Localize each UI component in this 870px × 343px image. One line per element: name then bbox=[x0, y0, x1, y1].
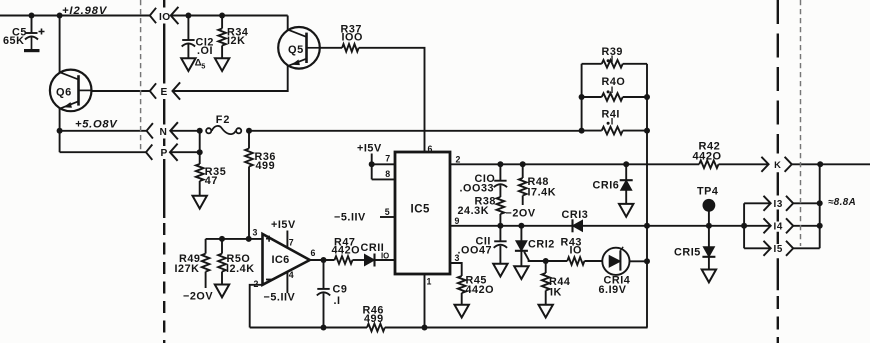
wire F2 to shunt resistors bbox=[249, 130, 582, 132]
connector pin IO bbox=[150, 7, 179, 24]
IC5 pin 1 label bbox=[427, 277, 432, 287]
node junction F2 right / R36 top bbox=[246, 128, 252, 134]
svg-text:I27K: I27K bbox=[175, 263, 200, 275]
svg-text:2: 2 bbox=[456, 154, 461, 164]
wire CR11 to IC5 pin 10 bbox=[375, 259, 396, 261]
IC6 pin 3 label bbox=[253, 227, 258, 237]
svg-text:+I5V: +I5V bbox=[271, 219, 296, 231]
svg-text:CRI6: CRI6 bbox=[593, 179, 620, 191]
ground arrow below R45 bbox=[455, 305, 469, 318]
net label +5.08V bbox=[75, 119, 118, 131]
net label +12.98V bbox=[62, 5, 108, 17]
ground arrow below R35 bbox=[193, 196, 207, 209]
svg-text:3: 3 bbox=[253, 227, 258, 237]
node junction K / output bracket bbox=[817, 161, 823, 167]
IC6 pin 2 label bbox=[254, 279, 259, 289]
node junction C9 / feedback rail bbox=[321, 325, 327, 331]
wire CR14 to sense rail node bbox=[630, 260, 648, 262]
svg-text:CRI2: CRI2 bbox=[528, 239, 555, 251]
svg-text:IC5: IC5 bbox=[411, 203, 431, 215]
op-amp IC6 bbox=[263, 234, 310, 285]
capacitor C9 .1 bbox=[317, 260, 348, 328]
ground arrow below R50 bbox=[215, 285, 229, 298]
diode CR16 bbox=[593, 164, 633, 203]
note delta-5 bbox=[195, 56, 206, 70]
node junction pin1 on feedback rail bbox=[422, 325, 428, 331]
svg-text:F2: F2 bbox=[216, 114, 231, 126]
node junction R40 left bbox=[579, 94, 585, 100]
-5.11V supply at IC6 pin 4 bbox=[264, 272, 296, 304]
wire R43 to CR14 bbox=[546, 260, 603, 262]
IC5 pin 6 label bbox=[428, 144, 433, 154]
svg-text:−2OV: −2OV bbox=[506, 207, 536, 219]
IC6 pin 4 label bbox=[289, 270, 294, 280]
ground arrow below R44 bbox=[539, 305, 553, 318]
resistor R46 499 bbox=[363, 305, 385, 332]
resistor R48 17.4K bbox=[519, 164, 556, 205]
svg-text:+I5V: +I5V bbox=[357, 142, 382, 154]
svg-text:+5.O8V: +5.O8V bbox=[75, 119, 118, 131]
connector pin P bbox=[146, 144, 178, 161]
node junction Q6 emitter / N wire bbox=[57, 128, 63, 134]
connector pin E bbox=[150, 82, 180, 99]
node junction CR16 on pin2 wire bbox=[623, 161, 629, 167]
node junction CR14 / sense rail bbox=[644, 258, 650, 264]
svg-text:5: 5 bbox=[201, 61, 205, 70]
capacitor C10 .0033 bbox=[460, 164, 508, 197]
wire output bracket right bbox=[819, 164, 821, 248]
ground arrow below C11 bbox=[493, 264, 507, 277]
ground arrow below CR15 bbox=[702, 270, 716, 283]
resistor R44 1K bbox=[542, 261, 571, 305]
op-amp IC5 bbox=[395, 152, 450, 274]
svg-text:6: 6 bbox=[428, 144, 433, 154]
board edge heavy dashed line (left) bbox=[163, 0, 165, 343]
svg-text:.OO47: .OO47 bbox=[458, 244, 493, 256]
wire IO to Q5 collector bbox=[171, 15, 288, 17]
IC5 pin 9 label bbox=[455, 216, 460, 226]
wire IC6 output bbox=[310, 259, 335, 261]
+15V supply to IC5 pins 7 and 8 bbox=[357, 142, 382, 179]
svg-text:+I2.98V: +I2.98V bbox=[62, 5, 108, 17]
svg-text:I2K: I2K bbox=[227, 35, 245, 47]
node junction bracket right I4 bbox=[817, 223, 823, 229]
svg-text:CRII: CRII bbox=[361, 242, 385, 254]
svg-text:6: 6 bbox=[311, 248, 316, 258]
resistor R47 4420 bbox=[332, 237, 361, 264]
svg-text:IOO: IOO bbox=[342, 31, 363, 43]
ground arrow below C12 bbox=[181, 58, 195, 71]
resistor R40 .1 bbox=[582, 76, 647, 101]
svg-text:7: 7 bbox=[385, 154, 390, 164]
svg-text:CRI3: CRI3 bbox=[562, 209, 589, 221]
svg-text:I3: I3 bbox=[774, 199, 783, 210]
board boundary thin dashed line (left) bbox=[140, 0, 142, 153]
svg-text:IK: IK bbox=[550, 287, 562, 299]
svg-text:−2OV: −2OV bbox=[183, 290, 213, 302]
svg-text:6.I9V: 6.I9V bbox=[599, 284, 627, 296]
svg-text:P: P bbox=[161, 148, 168, 159]
wire IC5 pin 2 to R42 bbox=[450, 163, 699, 165]
node junction R36 / pin3 wire bbox=[246, 236, 252, 242]
svg-text:499: 499 bbox=[256, 160, 276, 172]
wire feedback rail left segment bbox=[250, 327, 367, 329]
resistor R43 10 bbox=[561, 236, 585, 264]
-20V supply below R49 bbox=[183, 290, 213, 302]
wire P to connector P bbox=[60, 151, 146, 153]
svg-text:499: 499 bbox=[364, 313, 384, 325]
svg-text:I7.4K: I7.4K bbox=[528, 186, 557, 198]
svg-text:C9: C9 bbox=[333, 283, 348, 295]
wire shunt right rail bbox=[646, 64, 648, 131]
svg-text:7: 7 bbox=[289, 237, 294, 247]
wire IC6 pin 3 input bbox=[206, 238, 263, 240]
wire Q5 collector to top rail bbox=[287, 16, 289, 31]
resistor R35 47 bbox=[196, 152, 226, 195]
wire connector P to R35 node bbox=[170, 151, 200, 153]
fuse F2 bbox=[206, 114, 241, 134]
connector pin K bbox=[761, 157, 791, 172]
wire sense rail to feedback rail bbox=[646, 261, 648, 327]
IC5 pin 7 stub bbox=[372, 163, 395, 165]
diode CR13 bbox=[562, 209, 589, 233]
svg-text:442O: 442O bbox=[466, 284, 495, 296]
svg-text:−5.IIV: −5.IIV bbox=[264, 292, 296, 304]
wire IC5 pin 1 to feedback rail bbox=[424, 274, 426, 328]
wire down to P wire bbox=[59, 131, 61, 152]
wire top rail from left edge to connector IO bbox=[0, 15, 150, 17]
resistor R45 4420 bbox=[450, 263, 494, 305]
IC6 pin 6 label bbox=[311, 248, 316, 258]
svg-text:Q5: Q5 bbox=[288, 44, 304, 56]
node junction Q6 collector on top rail bbox=[57, 13, 63, 19]
wire Q6 emitter down to node bbox=[59, 108, 61, 130]
resistor R36 499 bbox=[245, 131, 276, 239]
svg-text:9: 9 bbox=[455, 216, 460, 226]
svg-text:47: 47 bbox=[205, 175, 218, 187]
svg-text:K: K bbox=[774, 159, 781, 170]
node junction sense rail on output line bbox=[644, 223, 650, 229]
wire Q5 emitter to E wire bbox=[173, 65, 288, 91]
svg-text:1: 1 bbox=[427, 277, 432, 287]
connector pin I5 bbox=[744, 241, 820, 256]
IC5 pin 10 label bbox=[381, 251, 389, 260]
resistor R50 12.4K bbox=[218, 239, 254, 284]
svg-text:IO: IO bbox=[570, 244, 583, 256]
wire IC6 pin 2 feedback bbox=[250, 285, 263, 328]
svg-text:TP4: TP4 bbox=[697, 185, 718, 197]
capacitor C12 .01 bbox=[182, 16, 214, 59]
svg-text:≈8.8A: ≈8.8A bbox=[828, 197, 856, 208]
node junction C12 on IO wire bbox=[185, 13, 191, 19]
-20V supply below R48 bbox=[506, 207, 536, 219]
resistor R49 127K bbox=[202, 239, 210, 288]
IC5 pin 5 stub bbox=[380, 216, 395, 218]
node junction R50 / pin3 wire bbox=[219, 236, 225, 242]
IC5 pin 2 label bbox=[456, 154, 461, 164]
node junction R41 left bbox=[579, 128, 585, 134]
svg-text:.OI: .OI bbox=[197, 45, 213, 57]
node junction F2 left / R35 branch bbox=[197, 128, 203, 134]
node junction bracket right I3 bbox=[817, 200, 823, 206]
svg-text:4: 4 bbox=[289, 270, 294, 280]
IC5 pin 7 label bbox=[385, 154, 390, 164]
svg-text:E: E bbox=[161, 87, 168, 98]
ground arrow below R34 bbox=[215, 58, 229, 71]
svg-text:8: 8 bbox=[385, 169, 390, 179]
IC5 pin 8 label bbox=[385, 169, 390, 179]
IC5 pin 5 label bbox=[385, 207, 390, 217]
ground arrow below CR12 bbox=[514, 266, 528, 279]
resistor R39 .1 bbox=[582, 46, 647, 67]
node junction C11 on pin9 wire bbox=[497, 223, 503, 229]
wire N from Q6 node to connector N bbox=[60, 130, 147, 132]
wire R47 to CR11 bbox=[353, 259, 365, 261]
wire K to right edge bbox=[792, 163, 870, 165]
node junction IC6 output / C9 bbox=[321, 257, 327, 263]
svg-text:R4O: R4O bbox=[602, 76, 626, 88]
svg-text:CRI5: CRI5 bbox=[674, 246, 701, 258]
wire Q6 base to connector E bbox=[92, 90, 150, 92]
board boundary thin dashed line (right) bbox=[800, 0, 802, 246]
svg-text:442O: 442O bbox=[332, 245, 361, 257]
diode CR14 6.19V (zener, circled) bbox=[599, 247, 631, 296]
svg-text:I: I bbox=[611, 117, 614, 127]
transistor Q6 bbox=[50, 70, 92, 112]
wire CR13 to output bracket bbox=[583, 225, 745, 227]
capacitor C5 65K (polarized) bbox=[3, 16, 45, 51]
connector pin I3 bbox=[744, 196, 820, 211]
ground arrow below CR16 bbox=[619, 204, 633, 217]
node junction R44 top bbox=[543, 258, 549, 264]
wire sense rail down to output line bbox=[646, 131, 648, 226]
node junction R48 on pin2 wire bbox=[520, 161, 526, 167]
svg-text:65K: 65K bbox=[3, 35, 24, 47]
resistor R38 24.3K bbox=[458, 196, 505, 226]
+15V supply at IC6 pin 7 bbox=[271, 219, 296, 247]
svg-text:.OO33: .OO33 bbox=[460, 182, 495, 194]
svg-text:I5: I5 bbox=[774, 244, 783, 255]
wire Q6 collector bbox=[59, 16, 61, 73]
IC5 pin 8 stub bbox=[372, 178, 395, 180]
resistor R42 4420 bbox=[693, 141, 722, 169]
wire R42 to connector K bbox=[719, 163, 769, 165]
resistor R37 100 bbox=[320, 24, 363, 52]
diode CR12 bbox=[515, 226, 555, 266]
svg-text:−5.IIV: −5.IIV bbox=[334, 211, 366, 223]
node junction C10 on pin2 wire bbox=[497, 161, 503, 167]
wire branch down to P wire bbox=[199, 131, 201, 152]
node junction R34 on IO wire bbox=[219, 13, 225, 19]
capacitor C11 .0047 bbox=[458, 226, 508, 264]
board edge heavy dashed line (right) bbox=[777, 0, 779, 343]
node junction R41 right bbox=[644, 128, 650, 134]
svg-text:IC6: IC6 bbox=[272, 254, 290, 266]
wire CR12 cathode to R43 node bbox=[524, 252, 546, 261]
svg-text:I: I bbox=[611, 85, 614, 95]
connector pin N bbox=[147, 122, 178, 139]
diode CR15 bbox=[674, 226, 715, 269]
svg-text:442O: 442O bbox=[693, 151, 722, 163]
node junction TP4 / CR15 on output line bbox=[706, 223, 712, 229]
svg-text:5: 5 bbox=[385, 207, 390, 217]
svg-text:I: I bbox=[611, 54, 614, 64]
wire shunt left rail bbox=[581, 64, 583, 131]
wire IC5 pin 9 to CR13 bbox=[450, 225, 573, 227]
resistor R49 labels bbox=[175, 253, 201, 275]
test point TP4 bbox=[697, 185, 718, 226]
svg-text:IO: IO bbox=[159, 12, 171, 23]
current note ~8.8A bbox=[828, 197, 856, 208]
svg-text:N: N bbox=[159, 127, 167, 138]
IC5 pin 3 label bbox=[455, 253, 460, 263]
node junction C5 on top rail bbox=[29, 13, 35, 19]
svg-text:I2.4K: I2.4K bbox=[226, 263, 255, 275]
wire R37 to IC5 pin 6 bbox=[359, 48, 425, 152]
transistor Q5 bbox=[278, 27, 320, 69]
wire feedback rail right segment bbox=[385, 326, 647, 329]
svg-text:Q6: Q6 bbox=[56, 87, 72, 99]
node junction R35 on P wire bbox=[197, 149, 203, 155]
node junction R40 right bbox=[644, 94, 650, 100]
wire output bracket left bbox=[743, 203, 745, 248]
wire connector N to F2 bbox=[170, 130, 199, 132]
svg-text:I4: I4 bbox=[774, 222, 783, 233]
connector pin I4 bbox=[744, 218, 820, 233]
resistor R34 12K bbox=[218, 16, 248, 59]
node junction bracket / output line bbox=[741, 223, 747, 229]
node junction CR12 on pin9 wire bbox=[518, 223, 524, 229]
-5.11V supply at IC5 pin 5 bbox=[334, 211, 366, 223]
wire sense rail output segment bbox=[646, 226, 648, 261]
svg-text:.I: .I bbox=[334, 295, 341, 307]
resistor R41 .1 bbox=[582, 109, 647, 135]
diode CR11 bbox=[361, 242, 385, 267]
svg-text:24.3K: 24.3K bbox=[458, 205, 490, 217]
IC6 pin 7 label bbox=[289, 237, 294, 247]
